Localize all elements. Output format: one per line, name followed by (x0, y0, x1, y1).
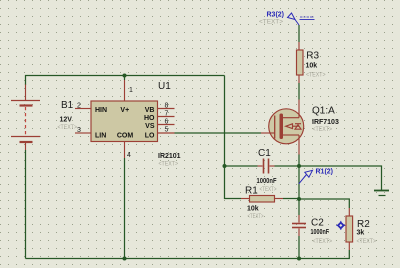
svg-text:<TEXT>: <TEXT> (357, 238, 377, 245)
capacitor C2 (292, 215, 306, 236)
U1 pin numbers (77, 87, 169, 159)
svg-text:IRF7103: IRF7103 (312, 119, 339, 126)
resistor R2 (346, 208, 353, 250)
resistor R1 (241, 196, 283, 203)
wire node B down to C2 (298, 199, 300, 215)
svg-text:6: 6 (165, 119, 169, 126)
svg-text:10k: 10k (247, 206, 259, 213)
svg-text:8: 8 (165, 103, 169, 110)
svg-text:<TEXT>: <TEXT> (58, 124, 78, 131)
IC U1 IR2101 body (91, 101, 158, 142)
svg-text:VB: VB (145, 107, 155, 114)
wire node B to R2 top (299, 199, 349, 208)
wire COM to bottom rail (124, 158, 126, 259)
svg-text:R3(2): R3(2) (267, 12, 285, 19)
svg-text:IR2101: IR2101 (158, 153, 181, 160)
node junction trunk / C1 wire (223, 164, 227, 168)
wire R3 top from probe (298, 25, 300, 42)
svg-text:<TEXT>: <TEXT> (313, 126, 333, 133)
svg-text:LO: LO (145, 133, 155, 140)
svg-text:HIN: HIN (95, 107, 107, 114)
svg-text:5: 5 (165, 127, 169, 134)
svg-text:1: 1 (129, 87, 133, 94)
battery B1 (11, 85, 40, 151)
svg-text:<TEXT>: <TEXT> (306, 72, 326, 79)
resistor R3 (297, 42, 304, 83)
node junction battery rail / V+ (123, 74, 127, 78)
wire Q1 source down to node B (298, 155, 300, 200)
svg-text:V+: V+ (120, 107, 129, 114)
svg-text:R2: R2 (357, 219, 370, 230)
wire vertical trunk to R1 left (225, 76, 242, 199)
pin 6 VS stub (158, 124, 175, 126)
svg-text:7: 7 (165, 111, 169, 118)
node junction Q1 source / C1 wire (297, 164, 301, 168)
svg-text:Q1:A: Q1:A (312, 106, 335, 117)
wire C1 left (225, 165, 258, 167)
pin 2 HIN stub (75, 108, 91, 110)
svg-text:12V: 12V (60, 117, 73, 124)
pin 7 HO stub (158, 116, 175, 118)
svg-text:<TEXT>: <TEXT> (248, 213, 264, 220)
svg-text:3k: 3k (357, 230, 365, 237)
svg-text:<TEXT>: <TEXT> (260, 186, 277, 193)
probe R3(2) readout (300, 17, 315, 20)
source link (283, 134, 299, 136)
node junction C2 / bottom rail (297, 257, 301, 261)
svg-text:VS: VS (145, 123, 155, 130)
svg-text:<TEXT>: <TEXT> (259, 19, 283, 26)
pin 5 LO stub (158, 132, 175, 134)
wire V+ drop (124, 76, 126, 81)
svg-text:R1: R1 (245, 186, 258, 197)
probe R1(2) arrow (299, 170, 313, 184)
svg-text:2: 2 (77, 103, 81, 110)
svg-text:U1: U1 (158, 81, 171, 92)
wire R3 bottom to Q1 drain (298, 83, 300, 100)
pin 8 VB stub (158, 108, 175, 110)
drain link (283, 117, 299, 119)
wire C1 right to Q1 source node (275, 165, 300, 167)
substrate arrow (286, 124, 293, 129)
svg-text:R1(2): R1(2) (316, 169, 334, 176)
svg-text:10k: 10k (306, 63, 318, 70)
current probe marker (blue diamond) (336, 221, 345, 230)
pin 4 COM stub (124, 142, 126, 159)
node junction COM / bottom rail (123, 257, 127, 261)
transistor Q1 IRF7103 (261, 100, 304, 155)
svg-text:R3: R3 (306, 51, 319, 62)
wire LO to Q1 gate (175, 132, 262, 134)
svg-text:1000nF: 1000nF (311, 229, 330, 236)
source pin (298, 135, 300, 155)
svg-text:LIN: LIN (95, 133, 106, 140)
drain pin (298, 100, 300, 118)
pin 1 V+ stub (124, 80, 126, 101)
wire source node to ground (299, 166, 382, 190)
node junction B (297, 197, 301, 201)
wire battery- down (25, 150, 27, 259)
pin 3 LIN stub (75, 132, 91, 134)
svg-text:HO: HO (144, 115, 155, 122)
svg-text:<TEXT>: <TEXT> (159, 161, 179, 168)
svg-text:<TEXT>: <TEXT> (313, 238, 333, 245)
svg-text:COM: COM (117, 133, 134, 140)
svg-text:C1: C1 (258, 148, 271, 159)
wire C2 bottom to rail (298, 236, 300, 259)
U1 pin labels (95, 107, 155, 140)
svg-text:3: 3 (77, 127, 81, 134)
svg-text:1000nF: 1000nF (257, 178, 278, 185)
svg-text:C2: C2 (311, 218, 324, 229)
capacitor C1 (258, 159, 275, 174)
svg-text:B1: B1 (61, 100, 74, 111)
body diode (295, 125, 301, 130)
ground (374, 191, 389, 196)
wire battery+ to top rail and to trunk corner (26, 76, 225, 86)
probe R3(2) (288, 13, 300, 25)
wire R1 right lead to node B (283, 198, 299, 200)
wire bottom rail (26, 250, 350, 259)
channel bar (280, 114, 284, 140)
svg-text:4: 4 (127, 152, 131, 159)
gate pin (261, 132, 275, 134)
gate bar (274, 116, 276, 139)
